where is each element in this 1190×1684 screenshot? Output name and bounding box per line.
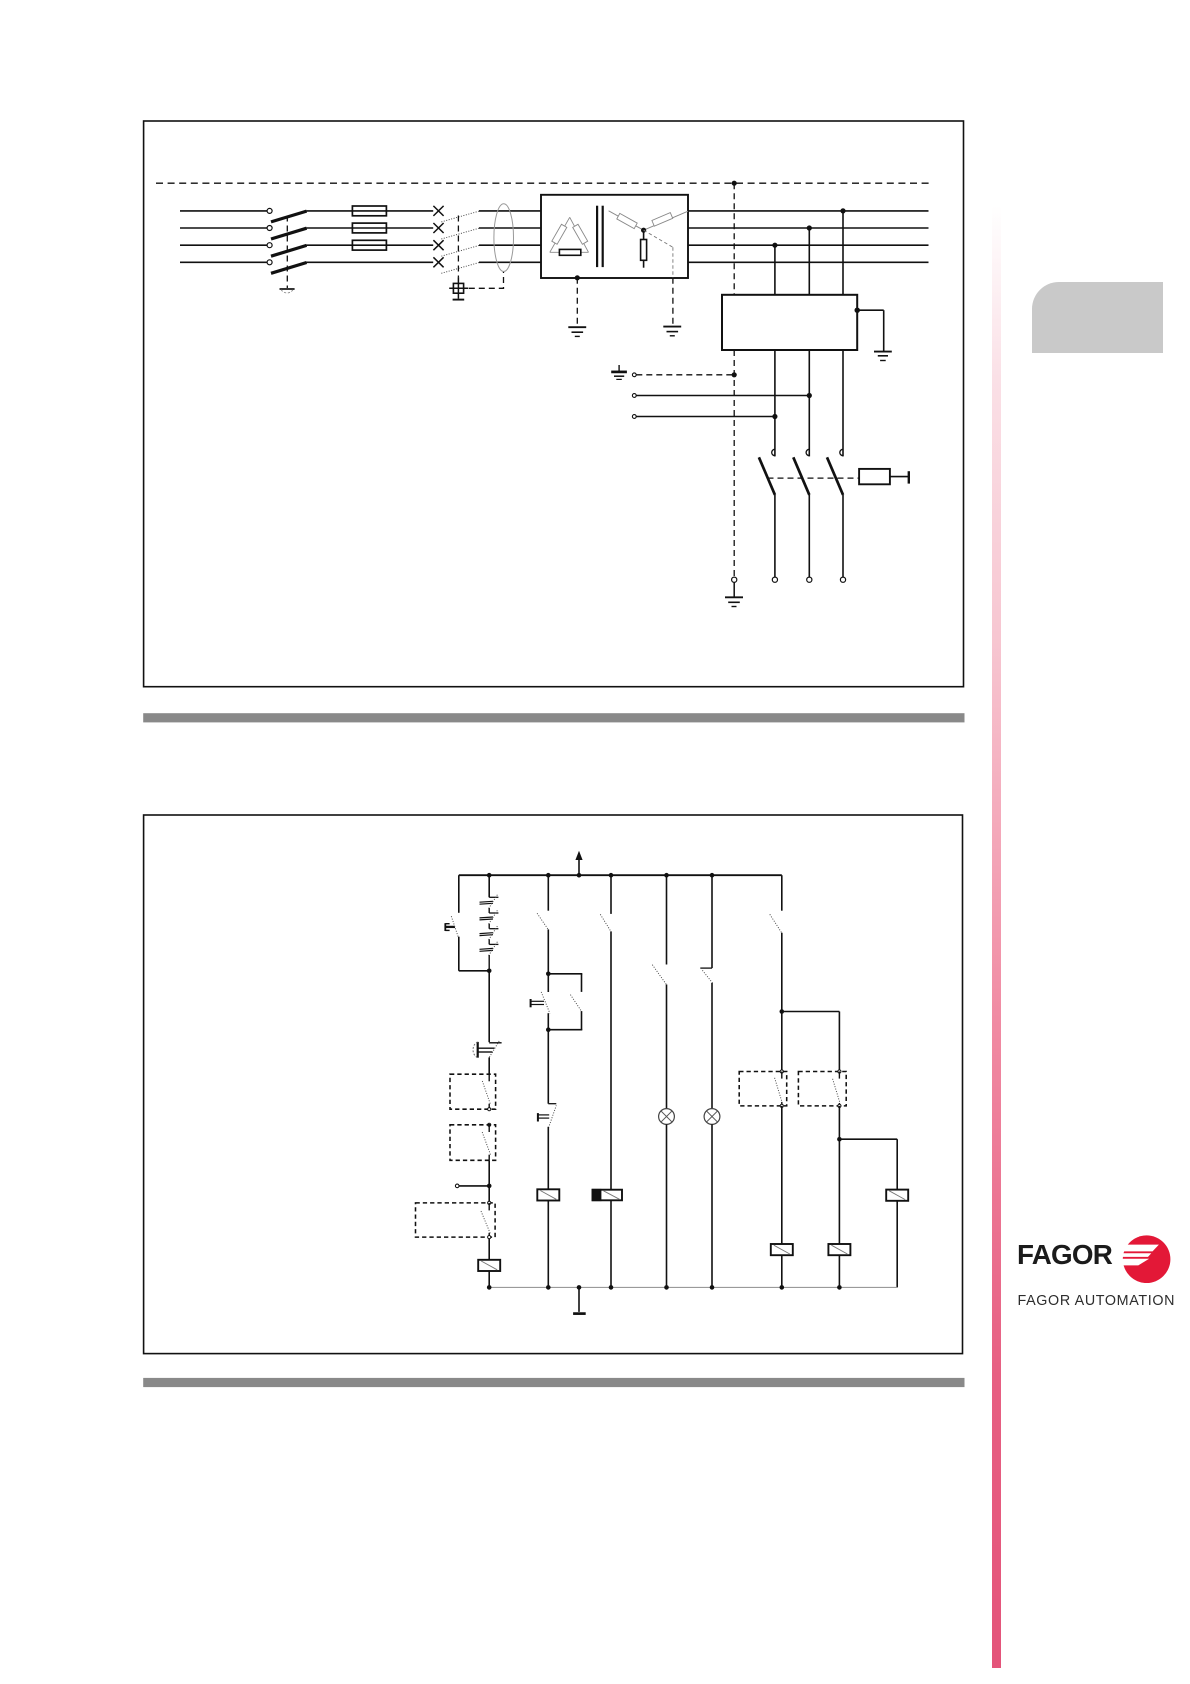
- column 1 upper wire: [488, 875, 490, 897]
- earth terminal circle (control line): [732, 577, 737, 582]
- thermal NC contact 2 link wire: [488, 924, 490, 929]
- separator rule 1: [143, 713, 964, 722]
- column 3 wire to timer coil: [610, 931, 612, 1189]
- contactor KM1 pole 3 lower wire: [842, 495, 844, 577]
- junction column 6 / column 7 branch: [780, 1009, 785, 1014]
- NC contact blade (column 5): [702, 970, 712, 983]
- contact NO blade (column 3): [600, 914, 611, 931]
- contactor KM1 pole 3 bottom terminal: [840, 577, 845, 582]
- disconnect point X mark L1: [433, 206, 443, 216]
- wire L2 segment to transformer: [479, 227, 541, 229]
- main switch Q1 linkage: [286, 216, 288, 289]
- isolator blade L1: [441, 211, 479, 222]
- main switch Q1 pole 1 blade: [271, 211, 307, 222]
- tap junction on L2: [807, 225, 812, 230]
- column 1 wire to relay coil: [488, 1239, 490, 1260]
- stop button S1 operator: [530, 999, 532, 1007]
- enclosure frame (mains connection diagram): [144, 121, 964, 687]
- drop wire L3 to power supply: [774, 245, 776, 295]
- external terminal wire: [459, 1185, 489, 1187]
- T1 neutral dashed link: [644, 230, 673, 247]
- contactor KM1 pole 2 lower wire: [808, 495, 810, 577]
- junction PE bus / control earth line: [732, 181, 737, 186]
- column 3 upper wire: [610, 875, 612, 914]
- contactor coil KM2: [828, 1244, 850, 1255]
- junction column 7 / right branch: [837, 1137, 842, 1142]
- right branch wire to 0V rail: [896, 1201, 898, 1288]
- 0V rail junction: [664, 1285, 669, 1290]
- T1 delta primary winding: [550, 217, 570, 252]
- rail junction: [577, 873, 582, 878]
- thermal NC contact 2 seat: [489, 912, 498, 914]
- 24V supply rail: [459, 874, 782, 876]
- disconnect point X mark N: [433, 257, 443, 267]
- stop button S1 blade: [541, 992, 550, 1014]
- PS chassis earth wire: [857, 309, 884, 311]
- junction terminal 3 / L3 drop: [772, 414, 777, 419]
- contactor KM1 pole 1 bottom terminal: [772, 577, 777, 582]
- chapter tab: [1032, 282, 1163, 353]
- column 2 upper wire: [547, 875, 549, 911]
- earth stub wire: [733, 582, 735, 597]
- drop wire L1 to power supply: [842, 211, 844, 295]
- 0V rail junction: [487, 1285, 492, 1290]
- control earth dashed line upper segment: [733, 183, 735, 295]
- column 6 wire: [781, 933, 783, 1072]
- control line earth symbol: [725, 596, 743, 598]
- dashed PE equipotential bus: [156, 182, 929, 184]
- bypass NO contact blade: [570, 995, 581, 1012]
- chassis reference bar: [573, 1312, 586, 1315]
- aux contact KM-a stub/blade: [781, 1072, 783, 1079]
- emergency stop SE blade: [489, 1040, 499, 1057]
- column 7 wire to 0V rail: [838, 1255, 840, 1287]
- aux contact 3 upper stub: [488, 1203, 490, 1211]
- thermal NC contact 3 link wire: [488, 939, 490, 944]
- T1 screen earth junction: [575, 275, 580, 280]
- aux contact box 2 (dashed): [450, 1125, 496, 1161]
- bypass branch lower wire: [581, 1011, 583, 1030]
- separator rule 2: [143, 1378, 964, 1387]
- aux contact box KT-a (dashed): [798, 1072, 846, 1106]
- column 5 wire to lamp H2: [711, 983, 713, 1109]
- T1 neutral earth symbol: [663, 326, 681, 328]
- thermal NC contact 2 bimetal bars: [480, 916, 494, 919]
- wire L1 segment to transformer: [479, 210, 541, 212]
- wire L1 segment to isolator: [306, 210, 433, 212]
- chassis reference stub: [578, 1287, 580, 1312]
- contact NO blade (column 4): [652, 965, 666, 985]
- aux contact 1 lower stub: [488, 1104, 490, 1110]
- relay coil KA1: [478, 1260, 500, 1271]
- column 5 upper wire: [711, 875, 713, 968]
- thermal NC contact 1 link wire: [488, 908, 490, 913]
- supply arrowhead: [575, 851, 582, 860]
- column 2 wire to NC button: [547, 974, 549, 992]
- main switch Q1 pole 2 terminal: [267, 226, 272, 231]
- main switch Q1 pole 1 terminal: [267, 208, 272, 213]
- thermal NC contact 1 bimetal bars: [480, 900, 494, 903]
- column 4 wire to 0V rail: [666, 1124, 668, 1287]
- column 1 wire to 0V rail: [488, 1271, 490, 1287]
- disconnect point X mark L2: [433, 223, 443, 233]
- drop wire L2 to power supply: [808, 228, 810, 295]
- contactor KM1 linkage: [768, 477, 859, 479]
- terminal 2 circle: [632, 394, 636, 398]
- PS chassis earth symbol: [874, 351, 892, 353]
- wire L3 incoming segment: [180, 244, 267, 246]
- NC contact 2 blade: [549, 1105, 557, 1127]
- NC contact seat (column 5): [700, 967, 712, 969]
- PS chassis terminal junction: [855, 308, 860, 313]
- main switch Q1 pole 2 blade: [271, 228, 307, 239]
- wire L1 incoming segment: [180, 210, 267, 212]
- 0V rail junction: [837, 1285, 842, 1290]
- isolator blade L2: [441, 228, 479, 239]
- rail junction: [546, 873, 551, 878]
- aux contact 1 lower border pin: [488, 1108, 491, 1111]
- column 7 upper wire: [838, 1012, 840, 1072]
- main switch Q1 pole 3 terminal: [267, 243, 272, 248]
- isolation transformer T1 body: [541, 195, 688, 278]
- contactor KM1 pole 1 blade: [759, 457, 775, 495]
- rail junction: [710, 873, 715, 878]
- contactor KM1 pole 3 blade: [827, 457, 843, 495]
- isolator linkage: [457, 216, 459, 278]
- wire L2 incoming segment: [180, 227, 267, 229]
- column 1 wire to emergency stop: [488, 971, 490, 1042]
- aux contact 3 upper border pin: [488, 1201, 491, 1204]
- junction column 1 / branch S0: [487, 969, 492, 974]
- NC contact 2 seat: [548, 1103, 556, 1105]
- column 6 upper wire: [781, 875, 783, 911]
- column 4 upper wire: [666, 875, 668, 964]
- thermal NC contact 4 seat: [489, 943, 498, 945]
- FAGOR wordmark: [1017, 1239, 1113, 1271]
- contactor KM1 pole 1 upper wire: [774, 350, 776, 456]
- terminal 3 wire: [636, 416, 775, 418]
- rail junction: [609, 873, 614, 878]
- wire L3 segment to isolator: [306, 244, 433, 246]
- contactor KM1 coil: [859, 469, 890, 484]
- T1 screen earth dashed wire: [576, 278, 578, 327]
- supply arrow stem: [578, 859, 580, 875]
- contactor KM1 pole 2 bottom terminal: [807, 577, 812, 582]
- enclosure frame (control circuit diagram): [144, 815, 963, 1354]
- cable screen drain dashed wire: [469, 271, 504, 288]
- main switch Q1 operator handle: [280, 288, 295, 290]
- thermal NC contact 2 blade: [489, 909, 498, 924]
- junction column 2 / bypass lower: [546, 1027, 551, 1032]
- rail junction: [487, 873, 492, 878]
- tap junction on L3: [772, 243, 777, 248]
- contactor KM1 pole 1 fixed contact arc: [772, 449, 775, 455]
- aux contact 2 blade: [482, 1132, 490, 1155]
- column 6 wire to 0V rail: [781, 1255, 783, 1287]
- aux contact KM-a upper border pin: [780, 1070, 783, 1073]
- aux contact 2 upper border pin: [488, 1123, 491, 1126]
- emergency stop SE seat: [489, 1042, 501, 1044]
- wire N output segment: [688, 261, 929, 263]
- column 4 wire to lamp H1: [666, 985, 668, 1109]
- right branch wire: [839, 1138, 897, 1140]
- 0V rail junction: [780, 1285, 785, 1290]
- T1 star secondary winding: [609, 211, 644, 230]
- 0V rail junction: [710, 1285, 715, 1290]
- column 5 wire to 0V rail: [711, 1124, 713, 1287]
- contactor KM1 pole 2 fixed contact arc: [806, 449, 809, 455]
- branch wire to column 7: [782, 1011, 840, 1013]
- aux contact box 1 (dashed): [450, 1074, 496, 1109]
- column 2 wire to 0V rail: [547, 1201, 549, 1288]
- wire L1 output segment: [688, 210, 929, 212]
- 0V rail junction: [546, 1285, 551, 1290]
- aux contact 1 blade: [482, 1081, 490, 1105]
- main switch Q1 pole 3 blade: [271, 245, 307, 256]
- aux contact 3 blade: [481, 1211, 490, 1233]
- isolator blade N: [441, 263, 479, 274]
- thermal NC contact 1 seat: [489, 896, 498, 898]
- fuse F2: [352, 223, 386, 233]
- emergency stop SE mushroom head: [477, 1042, 479, 1058]
- thermal NC contact 4 blade: [489, 941, 498, 956]
- contact NO blade (column 6): [770, 914, 782, 933]
- bypass branch upper wire: [548, 973, 582, 975]
- wire N segment to transformer: [479, 261, 541, 263]
- column 1 wire to aux contact 1: [488, 1057, 490, 1074]
- rail junction: [664, 873, 669, 878]
- column 2 wire to NC contact 2: [547, 1030, 549, 1104]
- thermal NC contact 3 seat: [489, 928, 498, 930]
- control earth dashed line lower segment: [733, 350, 735, 577]
- contactor KM1 pole 3 fixed contact arc: [840, 449, 843, 455]
- aux contact 3 lower border pin: [488, 1236, 491, 1239]
- wire L2 output segment: [688, 227, 929, 229]
- terminal PE circle: [632, 373, 636, 377]
- contactor KM1 pole 2 upper wire: [808, 350, 810, 456]
- 0V rail junction: [609, 1285, 614, 1290]
- column 3 wire to 0V rail: [610, 1200, 612, 1287]
- terminal 3 circle: [632, 415, 636, 419]
- timer coil KT1: [593, 1190, 623, 1201]
- aux contact 1 upper stub: [488, 1074, 490, 1081]
- main switch Q1 pole 4 terminal: [267, 260, 272, 265]
- aux contact 3 lower stub: [488, 1233, 490, 1237]
- aux contact KT-a lower border pin: [838, 1104, 841, 1107]
- aux contact box KM-a (dashed): [739, 1072, 787, 1106]
- junction control earth / PE terminal: [732, 372, 737, 377]
- branch S0 upper wire: [458, 875, 460, 913]
- indicator lamp H2: [704, 1109, 720, 1125]
- wire N incoming segment: [180, 261, 267, 263]
- thermal NC contact 4 link wire: [488, 955, 490, 971]
- aux contact KM-a lower border pin: [780, 1104, 783, 1107]
- aux contact box 3 (dashed, wide): [416, 1203, 496, 1237]
- column 6 wire to coil KM: [781, 1106, 783, 1244]
- wire L3 output segment: [688, 244, 929, 246]
- aux contact 2 lower stub: [488, 1155, 490, 1161]
- terminal PE earth symbol: [618, 365, 620, 371]
- FAGOR AUTOMATION caption: [1018, 1293, 1176, 1309]
- KM1 coil wire: [890, 476, 909, 478]
- terminal 2 wire: [636, 395, 809, 397]
- thermal NC contact 1 blade: [489, 894, 498, 909]
- 0V rail: [489, 1286, 897, 1288]
- column 7 wire: [838, 1106, 840, 1244]
- wire N segment to isolator: [306, 261, 433, 263]
- column 2 wire to coil KA2: [547, 1127, 549, 1190]
- contactor KM1 pole 2 blade: [793, 457, 809, 495]
- isolator blade L3: [441, 245, 479, 256]
- 0V rail junction: [577, 1285, 582, 1290]
- junction column 2 / bypass: [546, 972, 551, 977]
- KM1 coil end bar: [908, 471, 910, 483]
- fuse F3: [352, 240, 386, 250]
- pushbutton S0 operator: [444, 923, 446, 931]
- aux contact 2 upper stub: [488, 1125, 490, 1132]
- contact KM NO blade (column 2): [537, 913, 548, 929]
- fuse F1: [352, 206, 386, 216]
- NC contact 2 operator: [537, 1113, 539, 1121]
- aux contact KT-a upper border pin: [838, 1070, 841, 1073]
- contactor KM1 pole 3 upper wire: [842, 350, 844, 456]
- pushbutton S0 blade: [451, 916, 458, 937]
- relay coil KA3: [886, 1190, 908, 1201]
- T1 core: [596, 206, 598, 267]
- pink gradient sidebar: [992, 205, 1001, 1668]
- branch S0 link to column 1: [459, 970, 489, 972]
- T1 neutral earth dashed wire: [672, 278, 674, 326]
- relay coil KA2: [537, 1189, 559, 1200]
- T1 screen earth symbol: [568, 326, 586, 328]
- thermal NC contact 4 bimetal bars: [480, 947, 494, 950]
- tap junction on L1: [840, 208, 845, 213]
- column 2 wire below stop button: [547, 1013, 549, 1029]
- power supply unit PS body: [722, 295, 857, 350]
- disconnect point X mark L3: [433, 240, 443, 250]
- indicator lamp H1: [659, 1109, 675, 1125]
- PE terminal dashed wire: [636, 374, 732, 376]
- contactor KM1 pole 1 lower wire: [774, 495, 776, 577]
- thermal NC contact 3 bimetal bars: [480, 932, 494, 935]
- FAGOR emblem red circle: [1120, 1235, 1170, 1283]
- aux contact KT-a stub/blade: [838, 1072, 840, 1079]
- cable screen ellipse: [494, 204, 514, 272]
- junction column 1 / external terminal: [487, 1184, 492, 1189]
- contactor coil KM: [771, 1244, 793, 1255]
- branch S0 lower wire: [458, 937, 460, 971]
- junction terminal 2 / L2 drop: [807, 393, 812, 398]
- column 2 wire: [547, 929, 549, 973]
- main switch Q1 pole 4 blade: [271, 263, 307, 274]
- earth electrode symbol (screen bonding): [453, 283, 463, 293]
- column 1 wire to terminal junction: [488, 1160, 490, 1203]
- external terminal circle: [455, 1184, 459, 1188]
- wire L3 segment to transformer: [479, 244, 541, 246]
- thermal NC contact 3 blade: [489, 925, 498, 940]
- wire L2 segment to isolator: [306, 227, 433, 229]
